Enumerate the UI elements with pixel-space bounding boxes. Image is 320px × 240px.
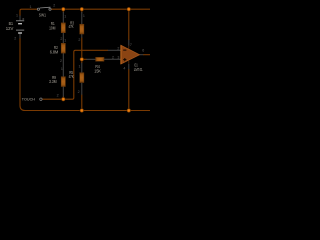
svg-text:47K: 47K (69, 24, 74, 29)
svg-text:47K: 47K (69, 74, 74, 79)
wire battery positive up to switch (20, 9, 37, 16)
svg-text:1: 1 (64, 39, 66, 43)
svg-text:1: 1 (30, 5, 32, 9)
svg-text:4: 4 (123, 66, 125, 70)
wire node stub top rail to R3 lead (81, 9, 83, 12)
battery polarity plus (22, 18, 24, 20)
svg-text:15K: 15K (94, 69, 101, 74)
op-amp pin 2 lead (108, 49, 121, 51)
svg-text:2: 2 (53, 4, 55, 8)
op-amp U1 (121, 45, 140, 64)
junction top rail at op-amp pin 7 (127, 7, 131, 11)
svg-text:1: 1 (61, 67, 63, 71)
touch terminal (40, 98, 42, 100)
svg-text:10M: 10M (49, 25, 56, 30)
svg-text:1: 1 (83, 14, 85, 18)
battery pin lead top (19, 16, 21, 21)
R9 bottom pin lead (62, 86, 64, 97)
wire op-amp pin 4 lead to bottom rail (128, 69, 130, 111)
svg-text:2: 2 (57, 93, 59, 97)
switch SW1 (37, 7, 51, 10)
wire top rail from switch to right edge (51, 8, 150, 10)
wire R9 lead to touch node (62, 97, 64, 100)
R2 to R9 pin leads (62, 53, 64, 77)
junction bottom rail at op-amp pin 4 (127, 108, 131, 112)
svg-text:2: 2 (117, 47, 119, 51)
svg-text:SW1: SW1 (39, 13, 47, 18)
op-amp output pin lead (139, 54, 143, 56)
svg-text:2: 2 (112, 55, 114, 59)
resistor R4 (96, 57, 104, 61)
resistor R3 (80, 24, 84, 34)
svg-text:2: 2 (78, 90, 80, 94)
resistor R1 (61, 23, 65, 33)
R1 pin leads (62, 12, 64, 23)
junction node B (80, 57, 84, 61)
R3 pin leads (81, 12, 83, 24)
svg-text:2: 2 (60, 59, 62, 63)
junction top rail at column B (80, 7, 84, 11)
resistor R2 (61, 43, 65, 53)
svg-text:LM741: LM741 (134, 67, 143, 72)
junction bottom rail at R5 (80, 108, 84, 112)
R4 pin leads (86, 58, 96, 60)
op-amp pin 4 lead (128, 64, 130, 69)
resistor R9 (61, 77, 65, 87)
wire R3 lead to node B and R5 lead (81, 38, 83, 64)
wire touch terminal to touch node (42, 98, 63, 100)
wire node B to R4 lead (82, 58, 87, 60)
op-amp pin 7 lead (128, 40, 130, 46)
junction touch node (61, 97, 65, 101)
R5 pin leads (81, 63, 83, 73)
wire R5 lead to bottom rail (81, 95, 83, 111)
svg-text:2: 2 (14, 37, 16, 41)
svg-text:TOUCH: TOUCH (22, 96, 35, 101)
wire node stub top rail to R1 lead (62, 9, 64, 12)
svg-text:6.8M: 6.8M (50, 49, 59, 54)
svg-text:7: 7 (130, 43, 132, 47)
svg-text:1: 1 (79, 65, 81, 69)
svg-text:3: 3 (117, 56, 119, 60)
wire touch node right and up to op-amp pin 2 (63, 50, 108, 99)
battery B1 (16, 21, 24, 33)
svg-text:1: 1 (64, 14, 66, 18)
svg-text:6: 6 (142, 48, 144, 52)
wire top rail down to op-amp pin 7 lead (128, 9, 130, 40)
battery pin lead bottom (19, 34, 21, 39)
svg-text:1: 1 (16, 14, 18, 18)
wire op-amp output to right edge (143, 54, 150, 56)
junction top rail at column A (61, 7, 65, 11)
resistor R5 (80, 73, 84, 83)
wire battery negative down and along bottom rail (20, 38, 150, 111)
svg-text:2: 2 (60, 37, 62, 41)
svg-text:3.3M: 3.3M (49, 79, 57, 84)
svg-text:2: 2 (78, 38, 80, 42)
svg-text:12V: 12V (6, 26, 14, 31)
